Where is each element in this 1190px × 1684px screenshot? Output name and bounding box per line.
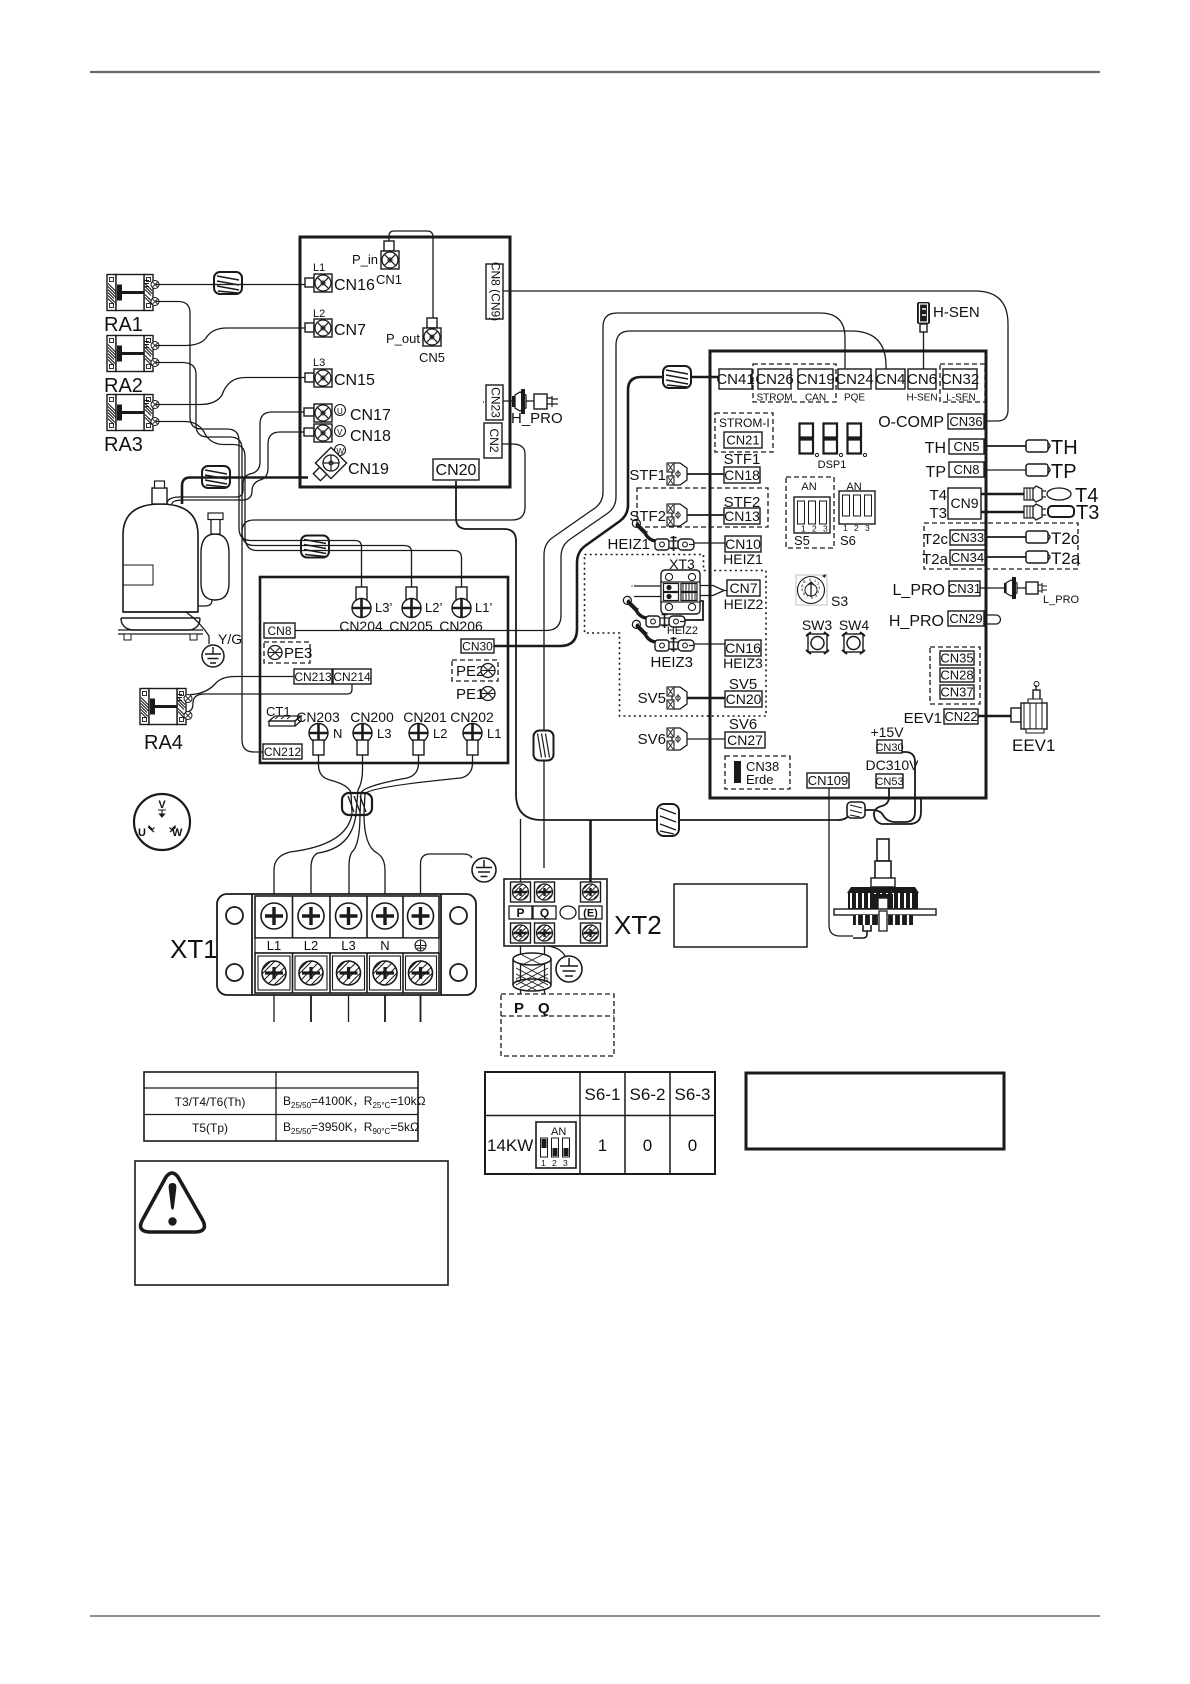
H_PRO pressure switch [503, 389, 563, 427]
wire XT3 to CN7m arrow [700, 586, 727, 596]
current transformer CT1 [266, 704, 301, 726]
wires B2 outputs to XT1 [274, 755, 473, 894]
svg-text:CN32: CN32 [941, 371, 979, 388]
connector CN6 H-SEN [906, 369, 937, 404]
dashed box CN38 Erde [725, 756, 790, 789]
field wires below XT1 [274, 995, 421, 1022]
svg-text:CN9: CN9 [950, 495, 978, 511]
connector CN16m HEIZ3 [723, 640, 763, 671]
wire CN8(CN9) to CN36 O-COMP loop [503, 291, 1008, 421]
svg-text:TH: TH [925, 440, 946, 457]
wire CN53 to motor loop [874, 788, 921, 824]
svg-text:STROM-I: STROM-I [719, 416, 770, 430]
compressor terminal legend circle UVW [134, 794, 190, 850]
svg-text:HEIZ1: HEIZ1 [607, 536, 650, 553]
svg-text:CN10: CN10 [725, 536, 761, 552]
solenoid valve SV5 [638, 687, 725, 709]
svg-text:CN201: CN201 [403, 709, 447, 725]
valve EEV1 connector CN22 [904, 682, 1056, 756]
svg-text:HEIZ2: HEIZ2 [667, 625, 698, 637]
connector CN1 P_in [352, 241, 402, 287]
dashed box STROM CAN [753, 364, 836, 402]
connector CN24 PQE [835, 369, 873, 404]
connector CN27 SV6 [725, 716, 765, 748]
ferrite bead L-corridor [301, 536, 329, 558]
svg-text:CN13: CN13 [724, 508, 760, 524]
connector CN109 [807, 773, 849, 788]
svg-text:V: V [337, 428, 343, 437]
connector CN18 with V [304, 424, 391, 445]
connector CN213 [294, 669, 332, 684]
screw L3 CN200 [350, 709, 394, 755]
label O-COMP and connector CN36 [878, 414, 984, 431]
svg-text:RA1: RA1 [104, 314, 143, 336]
connector CN7m HEIZ2 [724, 580, 764, 612]
svg-text:P: P [516, 906, 524, 920]
display DSP1 [800, 424, 867, 472]
compressor body [118, 481, 203, 640]
ferrite bead CN41 [663, 366, 691, 388]
svg-text:XT2: XT2 [614, 910, 662, 940]
sensor TP connector CN8m [926, 461, 1077, 483]
warning note box [135, 1161, 448, 1285]
connector CN26 STROM [755, 369, 793, 404]
connector CN16 with L1 [305, 262, 375, 294]
svg-text:L3: L3 [313, 357, 325, 369]
ground wire XT1 earth [421, 854, 473, 894]
svg-text:B: B [803, 579, 806, 584]
svg-text:3: 3 [563, 1158, 568, 1168]
svg-text:1: 1 [843, 523, 848, 533]
svg-text:L1’: L1’ [475, 600, 492, 615]
svg-text:CN5: CN5 [419, 350, 445, 365]
dashed box T2c T2a [924, 523, 1078, 569]
svg-text:TH: TH [1051, 437, 1078, 459]
svg-text:1: 1 [801, 524, 806, 534]
svg-text:CN36: CN36 [949, 414, 982, 429]
svg-text:RA4: RA4 [144, 732, 183, 754]
wire XT3 to HEIZ2 plug [685, 601, 703, 620]
svg-text:Q: Q [538, 1000, 550, 1017]
wire B2 CN8 up to CN4 [295, 331, 886, 631]
connector CN53 DC310V [866, 757, 920, 788]
ferrite bead RA1-CN16 [214, 272, 242, 294]
svg-text:STF1: STF1 [629, 467, 666, 484]
wire CN2 long run to left [242, 444, 525, 752]
svg-text:CN18: CN18 [724, 467, 760, 483]
svg-text:CN212: CN212 [264, 745, 302, 759]
connector CN212 [263, 744, 302, 759]
ferrite bead compressor W [202, 466, 230, 488]
connector CN8 (CN9) vertical [486, 262, 503, 321]
svg-text:CN203: CN203 [296, 709, 340, 725]
svg-text:CN17: CN17 [350, 407, 391, 424]
contactor RA4 [140, 689, 192, 755]
dashed box STF2 [637, 488, 768, 527]
svg-text:CN5: CN5 [953, 439, 979, 454]
svg-text:U: U [138, 827, 146, 839]
svg-text:RA3: RA3 [104, 434, 143, 456]
dashed box CN35 CN28 CN37 [930, 647, 980, 704]
svg-text:L2: L2 [304, 938, 318, 953]
svg-text:CN204: CN204 [339, 618, 383, 634]
ground Y/G from compressor [186, 612, 242, 667]
connector CN19m CAN [796, 369, 834, 404]
svg-text:STF2: STF2 [629, 508, 666, 525]
screw L2 CN201 [403, 709, 447, 755]
svg-text:HEIZ3: HEIZ3 [723, 655, 763, 671]
svg-text:L1: L1 [487, 726, 501, 741]
svg-text:L1: L1 [313, 262, 325, 274]
connector CN30 on B2 [461, 639, 494, 654]
svg-text:CN202: CN202 [450, 709, 494, 725]
sensor T2a connector CN34 [922, 549, 1081, 568]
svg-text:3: 3 [865, 523, 870, 533]
svg-text:(E): (E) [583, 908, 598, 920]
svg-text:H_PRO: H_PRO [511, 410, 563, 427]
wire bundle RA outputs to filter outputs [156, 302, 462, 588]
page rule bottom [90, 1615, 1100, 1617]
label XT1 [170, 934, 218, 964]
svg-text:PE2: PE2 [456, 663, 484, 680]
terminal XT3 [661, 556, 700, 614]
svg-text:T3: T3 [929, 505, 947, 522]
sensor TH connector CN5m [925, 437, 1078, 459]
screw L2' CN205 [389, 587, 442, 634]
dashed box L-SEN [940, 364, 985, 402]
svg-text:T2c: T2c [1051, 529, 1080, 548]
connector CN18m STF1 [724, 451, 761, 483]
empty note rectangle bottom right [746, 1073, 1004, 1149]
svg-text:T3/T4/T6(Th): T3/T4/T6(Th) [175, 1095, 246, 1109]
heater plug HEIZ3 [632, 620, 725, 671]
wire XT2 E up [589, 820, 592, 882]
svg-text:CN26: CN26 [755, 371, 793, 388]
svg-text:+15V: +15V [870, 724, 904, 740]
svg-text:L_PRO: L_PRO [893, 582, 945, 599]
heater plug HEIZ1 [607, 519, 725, 553]
svg-text:P: P [514, 1000, 524, 1017]
connector CN29 H_PRO stub [889, 611, 1001, 630]
screw L3' CN204 [339, 587, 392, 634]
svg-text:L-SEN: L-SEN [946, 393, 975, 404]
svg-text:O-COMP: O-COMP [878, 414, 944, 431]
svg-text:S6-3: S6-3 [675, 1085, 711, 1104]
svg-text:CN16: CN16 [334, 277, 375, 294]
connector CN10 HEIZ1 [723, 536, 763, 567]
svg-text:CN27: CN27 [727, 732, 763, 748]
table sensor values [144, 1072, 426, 1141]
svg-text:N: N [333, 726, 342, 741]
svg-text:CN109: CN109 [808, 773, 848, 788]
sensor H-SEN symbol [917, 302, 980, 369]
svg-text:CN23: CN23 [488, 387, 502, 418]
dip switch S6 [839, 481, 875, 548]
svg-text:2: 2 [552, 1158, 557, 1168]
svg-text:EEV1: EEV1 [904, 710, 942, 727]
svg-text:L2: L2 [433, 726, 447, 741]
svg-text:CN4: CN4 [875, 371, 905, 388]
svg-text:T2a: T2a [922, 551, 949, 568]
svg-text:H_PRO: H_PRO [889, 613, 944, 630]
svg-text:TP: TP [926, 464, 946, 481]
dashed comm box P Q [501, 994, 614, 1056]
svg-text:S5: S5 [794, 533, 810, 548]
svg-text:CN6: CN6 [907, 371, 937, 388]
dip switch S5 [786, 477, 834, 548]
svg-text:CN19: CN19 [348, 461, 389, 478]
svg-text:CN8: CN8 [953, 462, 979, 477]
svg-text:3: 3 [823, 524, 828, 534]
wire H_PRO CN23 stub [483, 401, 484, 403]
svg-text:P_in: P_in [352, 252, 378, 267]
svg-text:14KW: 14KW [487, 1136, 533, 1155]
ferrite bead XT2 Q wire [534, 731, 554, 761]
svg-text:CN206: CN206 [439, 618, 483, 634]
connector CN5 P_out [386, 318, 445, 365]
svg-text:0: 0 [643, 1136, 652, 1155]
svg-text:CN21: CN21 [726, 433, 759, 448]
dashed box STROM-I CN21 [715, 413, 773, 452]
svg-text:CN28: CN28 [940, 668, 973, 683]
svg-text:CN214: CN214 [333, 670, 371, 684]
svg-text:S3: S3 [831, 593, 848, 609]
svg-text:L2: L2 [313, 308, 325, 320]
contactor RA1 [104, 275, 159, 337]
svg-text:CN8: CN8 [267, 624, 291, 638]
wire CN18 to compressor V [172, 432, 304, 504]
wire B2 CN30 up to CN41 ferrite [494, 377, 719, 646]
svg-text:HEIZ1: HEIZ1 [723, 551, 763, 567]
terminal block XT2 [504, 879, 607, 946]
svg-text:CN31: CN31 [948, 581, 981, 596]
wire CN213 to RA4 [190, 677, 294, 695]
connector CN8 on B2 [264, 623, 295, 638]
svg-text:PE1: PE1 [456, 686, 484, 703]
svg-text:CN20: CN20 [726, 691, 762, 707]
contactor RA3 [104, 395, 159, 457]
accumulator vessel [198, 513, 229, 606]
svg-text:V: V [158, 799, 166, 811]
svg-text:SV6: SV6 [638, 731, 666, 748]
connector CN13 STF2 [724, 494, 761, 524]
svg-text:SW3: SW3 [802, 617, 833, 633]
svg-text:H-SEN: H-SEN [933, 304, 980, 321]
fan motor [834, 839, 936, 938]
ferrite bead corridor 820 [657, 804, 679, 836]
svg-text:L3: L3 [377, 726, 391, 741]
svg-text:HEIZ3: HEIZ3 [650, 654, 693, 671]
svg-text:L1: L1 [267, 938, 281, 953]
svg-text:N: N [380, 938, 389, 953]
svg-text:AN: AN [801, 481, 816, 493]
solenoid valve SV6 [638, 728, 725, 750]
svg-text:T3: T3 [1076, 502, 1099, 524]
flow switch STF1 [629, 463, 724, 485]
svg-text:Erde: Erde [746, 772, 773, 787]
svg-text:AN: AN [551, 1126, 566, 1138]
svg-text:CN22: CN22 [944, 709, 977, 724]
svg-text:CN37: CN37 [940, 685, 973, 700]
empty note rectangle right of XT2 [674, 884, 807, 947]
main control board outline [710, 351, 986, 798]
connector CN15 with L3 [305, 357, 375, 389]
wire CN109 down to motor [829, 788, 853, 936]
svg-text:S6: S6 [840, 533, 856, 548]
svg-text:S6-1: S6-1 [585, 1085, 621, 1104]
flow switch STF2 [629, 504, 724, 526]
dotted box heaters SV5 [585, 555, 767, 717]
heater plug HEIZ2 [623, 596, 698, 637]
svg-text:HEIZ2: HEIZ2 [724, 596, 764, 612]
svg-text:1: 1 [598, 1136, 607, 1155]
connector CN4 [875, 369, 905, 389]
svg-text:CN30: CN30 [875, 742, 903, 754]
rotary switch S3 [796, 574, 848, 609]
svg-text:U: U [337, 407, 343, 416]
wire CN1 to CN5 [389, 231, 433, 318]
svg-text:PQE: PQE [844, 393, 865, 404]
wire RA2 to CN7 [156, 328, 305, 346]
svg-text:DC310V: DC310V [866, 757, 920, 773]
ferrite bead XT1 bundle [342, 793, 372, 815]
connector CN41 [716, 369, 754, 389]
ferrite bead motor harness [847, 802, 865, 818]
svg-text:CN35: CN35 [940, 651, 973, 666]
wire RA1 to CN16 [156, 284, 305, 286]
svg-text:0: 0 [688, 1136, 697, 1155]
svg-text:1: 1 [541, 1158, 546, 1168]
wire CN19 to compressor W [182, 478, 308, 505]
svg-text:L2’: L2’ [425, 600, 442, 615]
connector CN2 vertical [484, 423, 502, 458]
svg-text:T5(Tp): T5(Tp) [192, 1121, 228, 1135]
screw PE2 [452, 660, 498, 681]
wire XT2 Q up to CN24 [544, 313, 845, 868]
svg-text:S6-2: S6-2 [630, 1085, 666, 1104]
svg-text:CN213: CN213 [294, 670, 332, 684]
svg-text:CN15: CN15 [334, 372, 375, 389]
connector CN30m +15V [870, 724, 904, 754]
screw N CN203 [296, 709, 342, 755]
shield braid under XT2 [513, 946, 551, 994]
svg-text:L3: L3 [341, 938, 355, 953]
connector CN32 L-SEN [941, 369, 979, 404]
svg-text:SW4: SW4 [839, 617, 870, 633]
earth symbol near XT1 [472, 858, 496, 882]
svg-text:CN30: CN30 [462, 640, 493, 654]
pressure switch L_PRO connector CN31 [893, 577, 1080, 606]
earth symbol near shield [548, 946, 582, 982]
svg-text:CN18: CN18 [350, 428, 391, 445]
screw PE3 [264, 642, 312, 663]
svg-text:CN34: CN34 [951, 550, 984, 565]
svg-text:CN16: CN16 [725, 640, 761, 656]
svg-text:DSP1: DSP1 [818, 459, 847, 471]
svg-text:CN33: CN33 [951, 530, 984, 545]
svg-text:SV6: SV6 [729, 716, 757, 733]
svg-text:Q: Q [540, 906, 549, 920]
filter board B2 outline [260, 577, 508, 763]
screw L1' CN206 [439, 587, 492, 634]
connector CN20 on B1 [433, 459, 479, 480]
svg-text:XT1: XT1 [170, 934, 218, 964]
wire CN214 to RA4 [188, 684, 352, 712]
svg-text:RA2: RA2 [104, 375, 143, 397]
screw PE1 [456, 686, 495, 703]
svg-text:Y/G: Y/G [218, 631, 242, 647]
table S6 settings [485, 1072, 715, 1174]
svg-text:CN1: CN1 [376, 272, 402, 287]
terminal block XT1 [217, 894, 476, 995]
svg-text:T2c: T2c [923, 531, 949, 548]
svg-text:CN2: CN2 [487, 428, 501, 452]
svg-text:CN19: CN19 [796, 371, 834, 388]
svg-text:T4: T4 [929, 487, 947, 504]
svg-text:CN53: CN53 [875, 776, 903, 788]
screw L1 CN202 [450, 709, 501, 755]
button SW3 [802, 617, 833, 654]
svg-text:H-SEN: H-SEN [906, 393, 937, 404]
svg-text:L_PRO: L_PRO [1043, 594, 1080, 606]
wire CN20 B1 down and right [456, 481, 838, 820]
connector CN23 vertical [486, 385, 503, 420]
wire CN17 to compressor U [167, 412, 304, 504]
svg-text:CN7: CN7 [334, 322, 366, 339]
sensor T4 T3 connector CN9 [929, 485, 1099, 524]
sensor T2c connector CN33 [923, 529, 1080, 548]
svg-text:CN205: CN205 [389, 618, 433, 634]
svg-text:CN8 (CN9): CN8 (CN9) [488, 262, 502, 321]
connector CN7 with L2 [305, 308, 366, 339]
svg-text:CN200: CN200 [350, 709, 394, 725]
svg-text:CAN: CAN [805, 393, 826, 404]
svg-text:STROM: STROM [756, 393, 792, 404]
contactor RA2 [104, 336, 159, 398]
wire stubs into XT3 [632, 586, 661, 597]
svg-text:T2a: T2a [1051, 549, 1081, 568]
button SW4 [839, 617, 870, 654]
warning triangle [141, 1173, 205, 1232]
label XT2 [614, 910, 662, 940]
svg-text:STF1: STF1 [724, 451, 761, 468]
svg-text:CN29: CN29 [949, 611, 982, 626]
connector CN214 [333, 669, 371, 684]
svg-text:CN41: CN41 [716, 371, 754, 388]
svg-text:CN20: CN20 [436, 462, 477, 479]
wire corridor to motor loop and CN30m [838, 752, 915, 822]
svg-text:P_out: P_out [386, 331, 420, 346]
svg-text:2: 2 [812, 524, 817, 534]
svg-text:SV5: SV5 [638, 690, 666, 707]
page rule top [90, 71, 1100, 73]
wire XT2 P up [520, 819, 522, 882]
wire RA3 to CN15 [156, 378, 305, 405]
svg-text:TP: TP [1051, 461, 1077, 483]
connector CN17 with U [304, 404, 391, 424]
connector CN20m SV5 [725, 676, 762, 707]
svg-text:CN24: CN24 [835, 371, 873, 388]
inverter board B1 outline [300, 237, 510, 487]
svg-text:CN7: CN7 [729, 580, 757, 596]
svg-text:2: 2 [854, 523, 859, 533]
svg-text:EEV1: EEV1 [1012, 736, 1055, 755]
connector CN19 with W rotated [309, 445, 389, 485]
svg-text:L3’: L3’ [375, 600, 392, 615]
svg-text:PE3: PE3 [284, 645, 312, 662]
